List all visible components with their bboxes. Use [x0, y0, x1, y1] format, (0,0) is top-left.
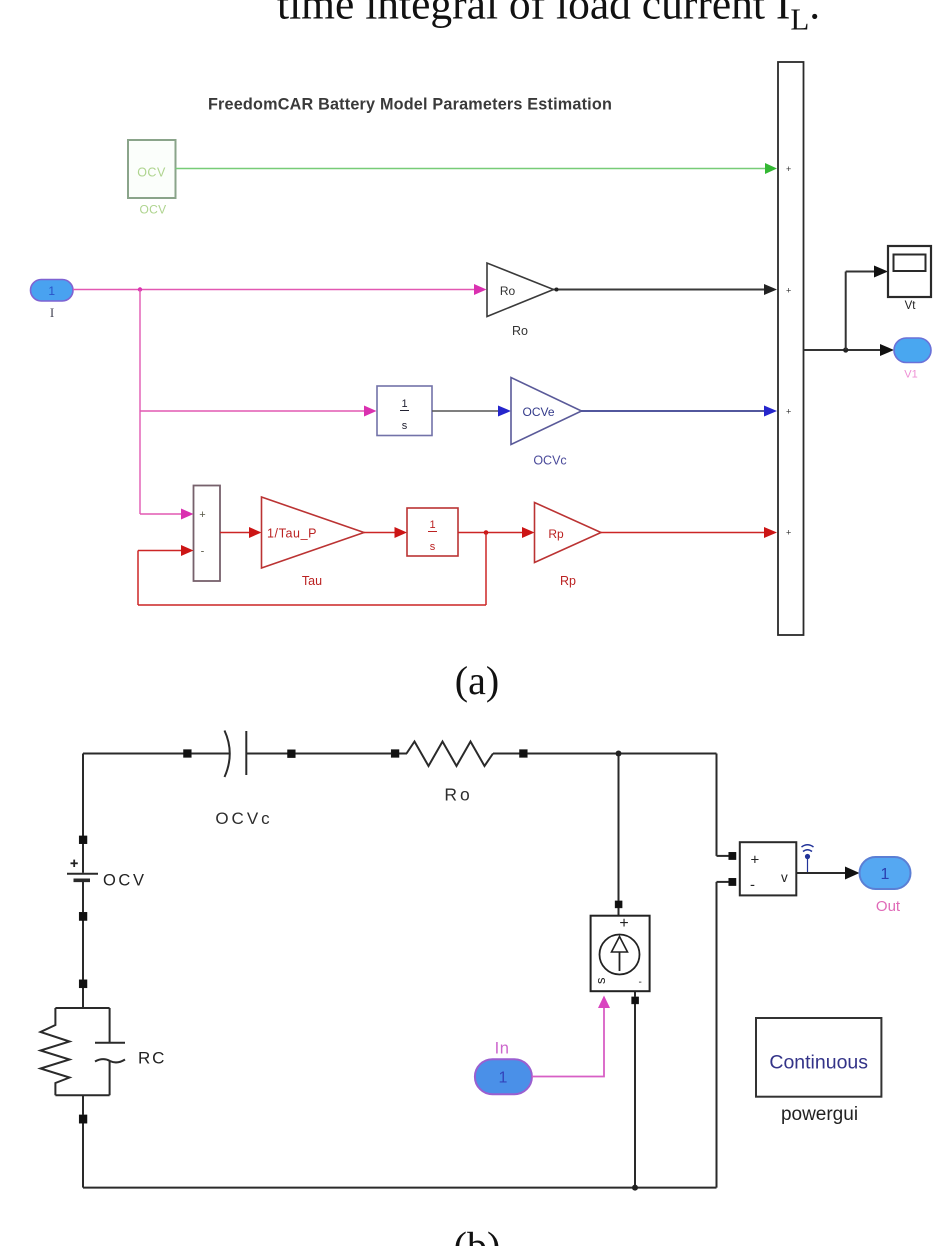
svg-text:(a): (a) — [455, 658, 499, 703]
svg-text:s: s — [593, 977, 608, 984]
svg-text:+: + — [786, 286, 791, 296]
svg-text:powergui: powergui — [781, 1104, 858, 1125]
svg-text:s: s — [430, 541, 436, 553]
svg-text:OCVc: OCVc — [533, 454, 566, 468]
svg-text:Rp: Rp — [548, 527, 564, 541]
svg-text:RC: RC — [138, 1049, 166, 1068]
svg-text:Rp: Rp — [560, 574, 576, 588]
svg-text:1: 1 — [48, 284, 55, 298]
svg-text:OCV: OCV — [137, 166, 166, 180]
svg-text:+: + — [786, 164, 791, 174]
svg-text:-: - — [201, 546, 205, 558]
svg-text:s: s — [402, 420, 408, 432]
svg-text:1: 1 — [429, 519, 435, 531]
svg-text:1: 1 — [499, 1070, 508, 1087]
svg-text:I: I — [50, 305, 54, 320]
svg-text:+: + — [199, 509, 205, 521]
svg-text:Ro: Ro — [444, 785, 472, 805]
svg-text:(b): (b) — [454, 1224, 501, 1246]
svg-text:OCVc: OCVc — [215, 809, 272, 828]
svg-text:Tau: Tau — [302, 574, 322, 588]
svg-text:In: In — [495, 1040, 510, 1058]
svg-text:OCVe: OCVe — [522, 405, 554, 419]
svg-text:Vt: Vt — [905, 300, 917, 312]
svg-text:-: - — [639, 977, 642, 988]
svg-text:+: + — [786, 528, 791, 538]
svg-text:+: + — [619, 915, 628, 932]
svg-text:1/Tau_P: 1/Tau_P — [267, 527, 317, 541]
svg-text:v: v — [781, 870, 788, 885]
svg-text:+: + — [751, 852, 760, 869]
svg-text:Ro: Ro — [500, 284, 516, 298]
svg-text:V1: V1 — [904, 369, 917, 381]
svg-text:OCV: OCV — [140, 203, 167, 217]
svg-text:OCV: OCV — [103, 872, 147, 890]
svg-text:+: + — [786, 407, 791, 417]
svg-text:Out: Out — [876, 898, 901, 915]
svg-text:FreedomCAR Battery Model Param: FreedomCAR Battery Model Parameters Esti… — [208, 96, 612, 114]
svg-text:1: 1 — [401, 398, 407, 410]
svg-text:Ro: Ro — [512, 324, 528, 338]
svg-text:Continuous: Continuous — [769, 1052, 868, 1074]
svg-text:1: 1 — [881, 866, 890, 883]
svg-text:-: - — [750, 877, 755, 894]
